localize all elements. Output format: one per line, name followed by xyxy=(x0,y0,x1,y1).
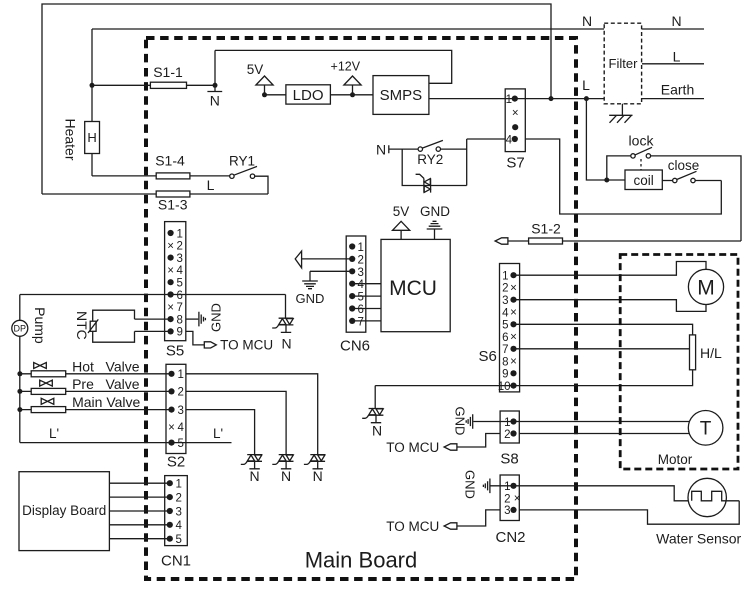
svg-text:N: N xyxy=(313,468,323,484)
svg-text:coil: coil xyxy=(633,173,653,188)
svg-text:Water Sensor: Water Sensor xyxy=(656,531,741,547)
svg-text:×: × xyxy=(167,240,174,252)
svg-text:1: 1 xyxy=(177,228,183,240)
svg-text:N: N xyxy=(372,423,382,439)
svg-text:TO MCU: TO MCU xyxy=(386,440,439,455)
svg-text:GND: GND xyxy=(463,470,478,499)
svg-text:DP: DP xyxy=(14,324,27,334)
svg-text:Hot Valve: Hot Valve xyxy=(72,359,140,375)
svg-text:L: L xyxy=(582,77,590,93)
svg-text:1: 1 xyxy=(178,369,184,381)
svg-text:1: 1 xyxy=(176,479,182,491)
svg-text:2: 2 xyxy=(504,493,510,505)
svg-text:RY2: RY2 xyxy=(417,152,443,167)
svg-text:S2: S2 xyxy=(167,454,185,471)
svg-text:4: 4 xyxy=(177,265,184,277)
svg-text:1: 1 xyxy=(504,417,510,429)
svg-text:4: 4 xyxy=(506,134,513,146)
svg-text:GND: GND xyxy=(420,204,450,219)
svg-text:3: 3 xyxy=(177,253,183,265)
svg-text:7: 7 xyxy=(177,302,183,314)
svg-text:5V: 5V xyxy=(247,62,264,77)
svg-text:5: 5 xyxy=(502,320,508,332)
svg-text:10: 10 xyxy=(498,381,511,393)
svg-text:×: × xyxy=(167,302,174,314)
svg-text:×: × xyxy=(167,265,174,277)
svg-text:Earth: Earth xyxy=(661,82,694,98)
svg-text:3: 3 xyxy=(504,505,510,517)
svg-text:H/L: H/L xyxy=(700,345,722,361)
svg-text:Pump: Pump xyxy=(32,307,48,344)
svg-text:1: 1 xyxy=(358,242,364,254)
svg-text:8: 8 xyxy=(502,356,508,368)
svg-text:×: × xyxy=(514,493,521,505)
svg-text:6: 6 xyxy=(502,332,508,344)
svg-text:+12V: +12V xyxy=(331,60,361,74)
svg-text:3: 3 xyxy=(176,506,182,518)
svg-text:Filter: Filter xyxy=(609,56,639,71)
svg-text:2: 2 xyxy=(178,387,184,399)
svg-text:8: 8 xyxy=(177,314,183,326)
svg-text:4: 4 xyxy=(176,520,183,532)
svg-text:L: L xyxy=(673,49,681,65)
svg-text:N: N xyxy=(376,142,386,158)
svg-text:2: 2 xyxy=(504,429,510,441)
svg-text:4: 4 xyxy=(502,307,509,319)
svg-text:1: 1 xyxy=(506,94,512,106)
svg-text:S5: S5 xyxy=(166,343,184,360)
svg-text:lock: lock xyxy=(629,133,655,149)
svg-text:S1-1: S1-1 xyxy=(153,64,183,80)
svg-text:5: 5 xyxy=(176,534,182,546)
svg-text:NTC: NTC xyxy=(74,311,90,340)
svg-text:1: 1 xyxy=(504,481,510,493)
svg-text:GND: GND xyxy=(296,291,325,306)
svg-text:1: 1 xyxy=(502,270,508,282)
svg-text:Display Board: Display Board xyxy=(22,503,106,518)
svg-text:7: 7 xyxy=(502,344,508,356)
svg-text:M: M xyxy=(697,277,715,300)
svg-text:L': L' xyxy=(49,426,59,441)
svg-text:SMPS: SMPS xyxy=(380,87,423,104)
svg-text:×: × xyxy=(510,307,517,319)
svg-text:N: N xyxy=(250,468,260,484)
svg-text:S1-2: S1-2 xyxy=(531,221,561,237)
svg-text:7: 7 xyxy=(358,316,364,328)
svg-text:Motor: Motor xyxy=(658,452,693,467)
svg-text:H: H xyxy=(87,130,96,145)
svg-text:CN6: CN6 xyxy=(340,338,370,355)
svg-text:CN2: CN2 xyxy=(495,529,525,546)
svg-text:4: 4 xyxy=(358,279,365,291)
svg-text:N: N xyxy=(671,13,681,29)
svg-text:L': L' xyxy=(213,426,223,441)
svg-text:N: N xyxy=(281,468,291,484)
svg-text:×: × xyxy=(510,332,517,344)
svg-text:3: 3 xyxy=(502,295,508,307)
svg-text:S7: S7 xyxy=(506,155,524,172)
svg-text:T: T xyxy=(700,419,712,440)
svg-text:2: 2 xyxy=(358,254,364,266)
svg-text:Heater: Heater xyxy=(63,118,79,160)
svg-text:Pre Valve: Pre Valve xyxy=(72,376,140,392)
svg-text:TO MCU: TO MCU xyxy=(386,519,439,534)
svg-text:GND: GND xyxy=(209,303,224,332)
svg-text:5: 5 xyxy=(177,278,183,290)
svg-text:×: × xyxy=(510,283,517,295)
svg-text:×: × xyxy=(512,108,519,120)
svg-text:×: × xyxy=(510,356,517,368)
svg-text:5: 5 xyxy=(178,438,184,450)
svg-text:S1-3: S1-3 xyxy=(158,197,188,213)
svg-text:6: 6 xyxy=(358,304,364,316)
svg-text:L: L xyxy=(207,177,215,193)
svg-text:MCU: MCU xyxy=(389,277,437,300)
svg-text:9: 9 xyxy=(177,327,183,339)
svg-text:5V: 5V xyxy=(393,204,410,219)
svg-text:2: 2 xyxy=(176,492,182,504)
svg-text:N: N xyxy=(582,13,592,29)
svg-text:3: 3 xyxy=(358,267,364,279)
svg-text:S6: S6 xyxy=(479,348,497,365)
svg-text:RY1: RY1 xyxy=(229,154,255,169)
svg-text:5: 5 xyxy=(358,292,364,304)
svg-text:4: 4 xyxy=(178,422,185,434)
svg-text:2: 2 xyxy=(502,283,508,295)
svg-text:CN1: CN1 xyxy=(161,553,191,570)
svg-text:Main Valve: Main Valve xyxy=(72,394,140,410)
svg-text:GND: GND xyxy=(453,407,468,436)
svg-text:Main Board: Main Board xyxy=(305,548,418,573)
svg-text:2: 2 xyxy=(177,241,183,253)
svg-text:3: 3 xyxy=(178,405,184,417)
svg-text:N: N xyxy=(281,336,291,352)
svg-text:LDO: LDO xyxy=(293,87,324,104)
svg-text:S8: S8 xyxy=(500,451,518,468)
svg-text:close: close xyxy=(668,158,700,173)
svg-text:6: 6 xyxy=(177,290,183,302)
svg-text:S1-4: S1-4 xyxy=(155,153,185,169)
svg-text:N: N xyxy=(210,93,220,109)
svg-text:×: × xyxy=(168,422,175,434)
svg-text:TO MCU: TO MCU xyxy=(220,338,273,353)
svg-text:9: 9 xyxy=(502,369,508,381)
